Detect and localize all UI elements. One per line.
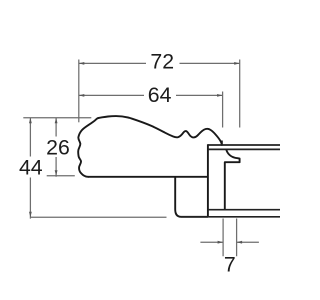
arrow 72 right <box>234 62 240 65</box>
arrow 64 right <box>217 94 223 97</box>
svg-text:7: 7 <box>224 252 236 276</box>
arrow 26 top <box>55 118 58 124</box>
frame moulding left carved (wavy) edge <box>78 118 98 177</box>
back foot of moulding <box>175 177 208 217</box>
moulding inner face (rabbet wall) <box>207 144 209 217</box>
rabbet lip front face <box>221 141 223 146</box>
arrow 7 left <box>218 241 224 244</box>
dimension line 44 (vertical x=30.4) <box>29 118 31 219</box>
arrow 7 right <box>237 241 243 244</box>
extension line top horizontal (y=117.7) <box>23 117 91 119</box>
dimension line 64 <box>79 94 223 96</box>
backing board top line <box>208 209 280 211</box>
arrow 26 bottom <box>55 170 58 176</box>
extension line at moulding bottom (y=175.8) <box>47 175 75 177</box>
glass sheet bottom line <box>208 148 280 150</box>
arrow 44 top <box>29 118 32 124</box>
svg-text:72: 72 <box>150 50 174 74</box>
glass sheet top line <box>208 144 280 146</box>
svg-text:26: 26 <box>46 136 70 160</box>
frame moulding profile outline (top decorative curve) <box>99 116 222 145</box>
back retainer step piece with cove <box>225 150 240 210</box>
extension lines for 7 (verticals) <box>223 219 237 257</box>
arrow 72 left <box>79 62 85 65</box>
arrow 44 bottom <box>29 212 32 218</box>
backing board bottom line <box>181 216 280 218</box>
arrow 64 left <box>79 94 85 97</box>
extension line right vertical for 72 (x=239.7) <box>239 60 241 128</box>
svg-text:64: 64 <box>148 83 172 107</box>
dimension line 72 <box>79 62 240 64</box>
extension line bottom horizontal (y=217.3) <box>30 216 166 218</box>
svg-text:44: 44 <box>19 155 43 179</box>
dimension line 7 (outside arrows) <box>200 241 259 243</box>
moulding bottom edge <box>88 176 208 178</box>
dimension line 26 (vertical x=56.1) <box>55 118 57 177</box>
extension line left vertical (x=78.8) <box>78 60 80 123</box>
extension line right vertical for 64 (x=222.6) <box>222 92 224 128</box>
